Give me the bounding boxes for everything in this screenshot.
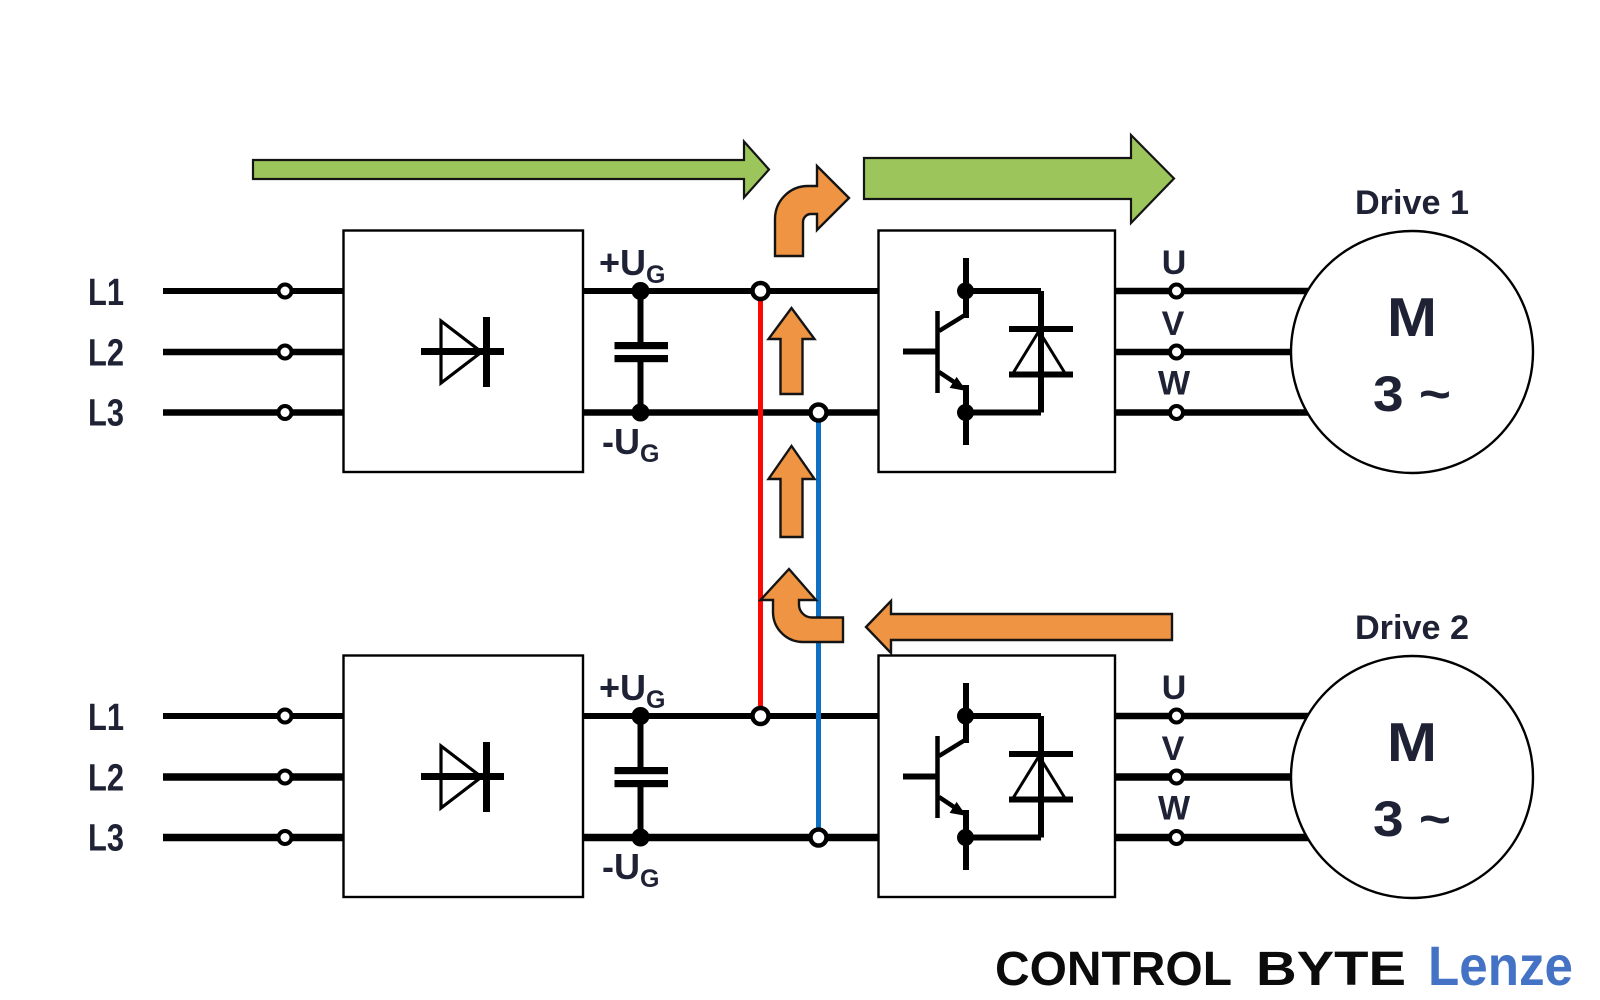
terminal U drive 1: [1170, 285, 1183, 298]
terminal X2.L2: [279, 771, 292, 784]
freewheeling diode DF1: [1009, 329, 1073, 375]
wire L2 input drive 1: [163, 349, 344, 356]
wire L1 input drive 2: [163, 713, 344, 719]
terminal W drive 2: [1170, 831, 1183, 844]
svg-text:3 ~: 3 ~: [1373, 366, 1451, 422]
terminal U drive 2: [1170, 710, 1183, 723]
wire DC- link (blue): [816, 413, 821, 838]
svg-text:W: W: [1158, 790, 1191, 828]
svg-text:L1: L1: [88, 697, 124, 739]
junction -UG capacitor drive 1: [632, 404, 650, 422]
orange elbow arrow bottom (regen from drive 2): [761, 569, 844, 642]
svg-text:Drive 1: Drive 1: [1355, 184, 1469, 222]
motor M2 3-phase: [1291, 656, 1533, 898]
wire L3 input drive 1: [163, 409, 344, 416]
svg-text:U: U: [1162, 244, 1187, 282]
svg-text:Lenze: Lenze: [1428, 934, 1573, 997]
rectifier diode symbol D1: [421, 317, 504, 387]
orange elbow arrow top (regen to line): [775, 166, 849, 256]
node -UG drive 1 / blue link top: [811, 405, 827, 421]
capacitor C1: [615, 291, 669, 413]
wire U output drive 1: [1115, 288, 1322, 295]
motor M1 3-phase: [1291, 231, 1533, 473]
terminal X1.L2: [279, 346, 292, 359]
orange up arrow A (DC bus feed): [769, 308, 815, 394]
terminal W drive 1: [1170, 406, 1183, 419]
node -UG drive 2 / blue link bottom: [811, 830, 827, 846]
green power-flow arrow right: [864, 135, 1174, 223]
orange up arrow B (DC bus feed): [769, 446, 815, 537]
svg-text:V: V: [1162, 305, 1185, 343]
rectifier box B2: [344, 656, 584, 898]
terminal X2.L1: [279, 710, 292, 723]
inverter box U2: [879, 656, 1116, 898]
wire V output drive 1: [1115, 349, 1300, 356]
svg-text:U: U: [1162, 669, 1187, 707]
junction +UG capacitor drive 2: [632, 707, 650, 725]
svg-text:M: M: [1387, 286, 1437, 348]
wire U output drive 2: [1115, 713, 1322, 720]
capacitor C2: [615, 716, 669, 838]
IGBT transistor Q2: [903, 683, 1041, 870]
inverter box U1: [879, 231, 1116, 473]
wire L3 input drive 2: [163, 834, 344, 842]
IGBT transistor Q1: [903, 258, 1041, 445]
svg-text:3 ~: 3 ~: [1373, 791, 1451, 847]
junction -UG capacitor drive 2: [632, 829, 650, 847]
terminal X1.L3: [279, 406, 292, 419]
wire L2 input drive 2: [163, 773, 344, 781]
svg-text:L3: L3: [88, 393, 124, 435]
rectifier box B1: [344, 231, 584, 473]
wire DC+ link (red): [758, 291, 763, 716]
terminal X1.L1: [279, 285, 292, 298]
wire W output drive 1: [1115, 409, 1322, 416]
svg-text:L2: L2: [88, 758, 124, 800]
rectifier diode symbol D2: [421, 742, 504, 812]
svg-text:W: W: [1158, 365, 1191, 403]
svg-text:M: M: [1387, 711, 1437, 773]
node +UG drive 2 / red link bottom: [753, 708, 769, 724]
terminal V drive 2: [1170, 771, 1183, 784]
svg-text:CONTROL: CONTROL: [995, 943, 1232, 996]
wire -UG bus drive 2: [583, 834, 879, 842]
svg-text:L2: L2: [88, 333, 124, 375]
wire V output drive 2: [1115, 773, 1300, 781]
svg-text:L3: L3: [88, 818, 124, 860]
junction +UG capacitor drive 1: [632, 282, 650, 300]
green power-flow arrow left: [253, 142, 769, 198]
wire L1 input drive 1: [163, 288, 344, 294]
wire +UG bus drive 1: [583, 288, 879, 294]
terminal V drive 1: [1170, 346, 1183, 359]
node +UG drive 1 / red link top: [753, 283, 769, 299]
svg-text:Drive 2: Drive 2: [1355, 609, 1469, 647]
svg-text:L1: L1: [88, 272, 124, 314]
svg-text:BYTE: BYTE: [1256, 943, 1406, 996]
terminal X2.L3: [279, 831, 292, 844]
wire -UG bus drive 1: [583, 409, 879, 416]
svg-text:V: V: [1162, 730, 1185, 768]
wire W output drive 2: [1115, 834, 1322, 842]
freewheeling diode DF2: [1009, 754, 1073, 800]
wire +UG bus drive 2: [583, 713, 879, 719]
orange regeneration arrow (left, from drive 2 inverter): [866, 601, 1172, 653]
